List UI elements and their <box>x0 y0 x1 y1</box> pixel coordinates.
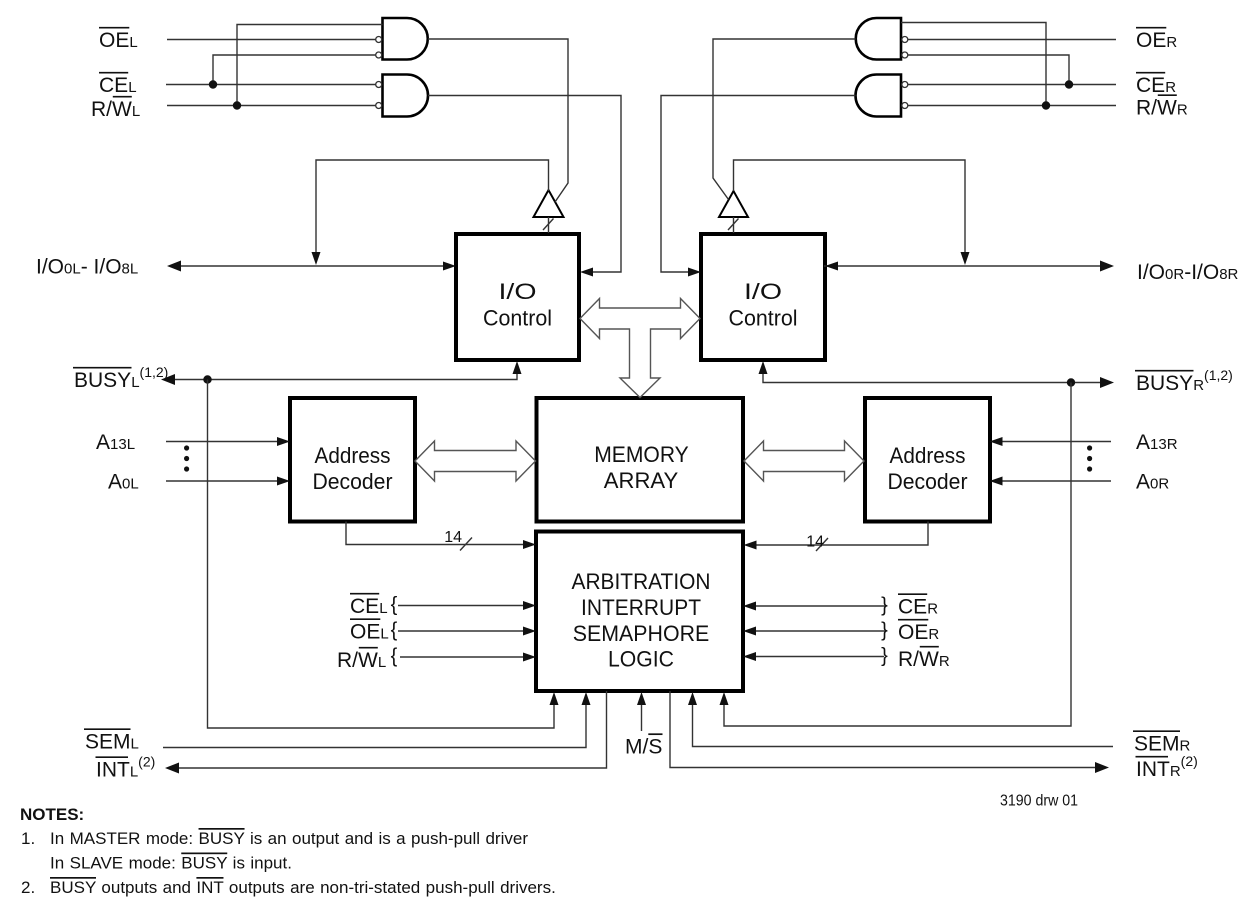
svg-text:In SLAVE mode: BUSY is input.: In SLAVE mode: BUSY is input. <box>50 854 292 873</box>
svg-text:ARBITRATION: ARBITRATION <box>572 569 711 594</box>
svg-text:Address: Address <box>890 443 966 468</box>
svg-text:INTERRUPT: INTERRUPT <box>581 595 701 620</box>
svg-text:1.: 1. <box>21 829 35 848</box>
svg-text:}: } <box>881 620 888 642</box>
svg-text:LOGIC: LOGIC <box>608 647 674 672</box>
svg-text:MEMORY: MEMORY <box>594 442 689 467</box>
svg-text:I/O: I/O <box>499 279 537 304</box>
svg-text:2.: 2. <box>21 878 35 897</box>
svg-text:{: { <box>391 594 398 616</box>
svg-text:Control: Control <box>729 306 798 331</box>
svg-text:{: { <box>391 646 398 668</box>
svg-text:In MASTER mode: BUSY is an out: In MASTER mode: BUSY is an output and is… <box>50 829 528 848</box>
svg-text:14: 14 <box>806 534 824 551</box>
svg-text:Address: Address <box>315 443 391 468</box>
svg-text:M/S: M/S <box>625 736 662 759</box>
svg-text:SEMAPHORE: SEMAPHORE <box>573 621 710 646</box>
svg-text:}: } <box>881 645 888 667</box>
svg-text:14: 14 <box>444 529 462 546</box>
svg-text:Control: Control <box>483 306 552 331</box>
svg-text:ARRAY: ARRAY <box>604 468 679 493</box>
svg-text:{: { <box>391 620 398 642</box>
svg-text:3190 drw 01: 3190 drw 01 <box>1000 793 1078 810</box>
svg-text:BUSY outputs and INT outputs a: BUSY outputs and INT outputs are non-tri… <box>50 878 556 897</box>
svg-text:NOTES:: NOTES: <box>20 805 84 824</box>
svg-text:}: } <box>881 595 888 617</box>
svg-text:Decoder: Decoder <box>313 469 393 494</box>
svg-text:Decoder: Decoder <box>888 469 968 494</box>
svg-text:I/O: I/O <box>744 279 782 304</box>
